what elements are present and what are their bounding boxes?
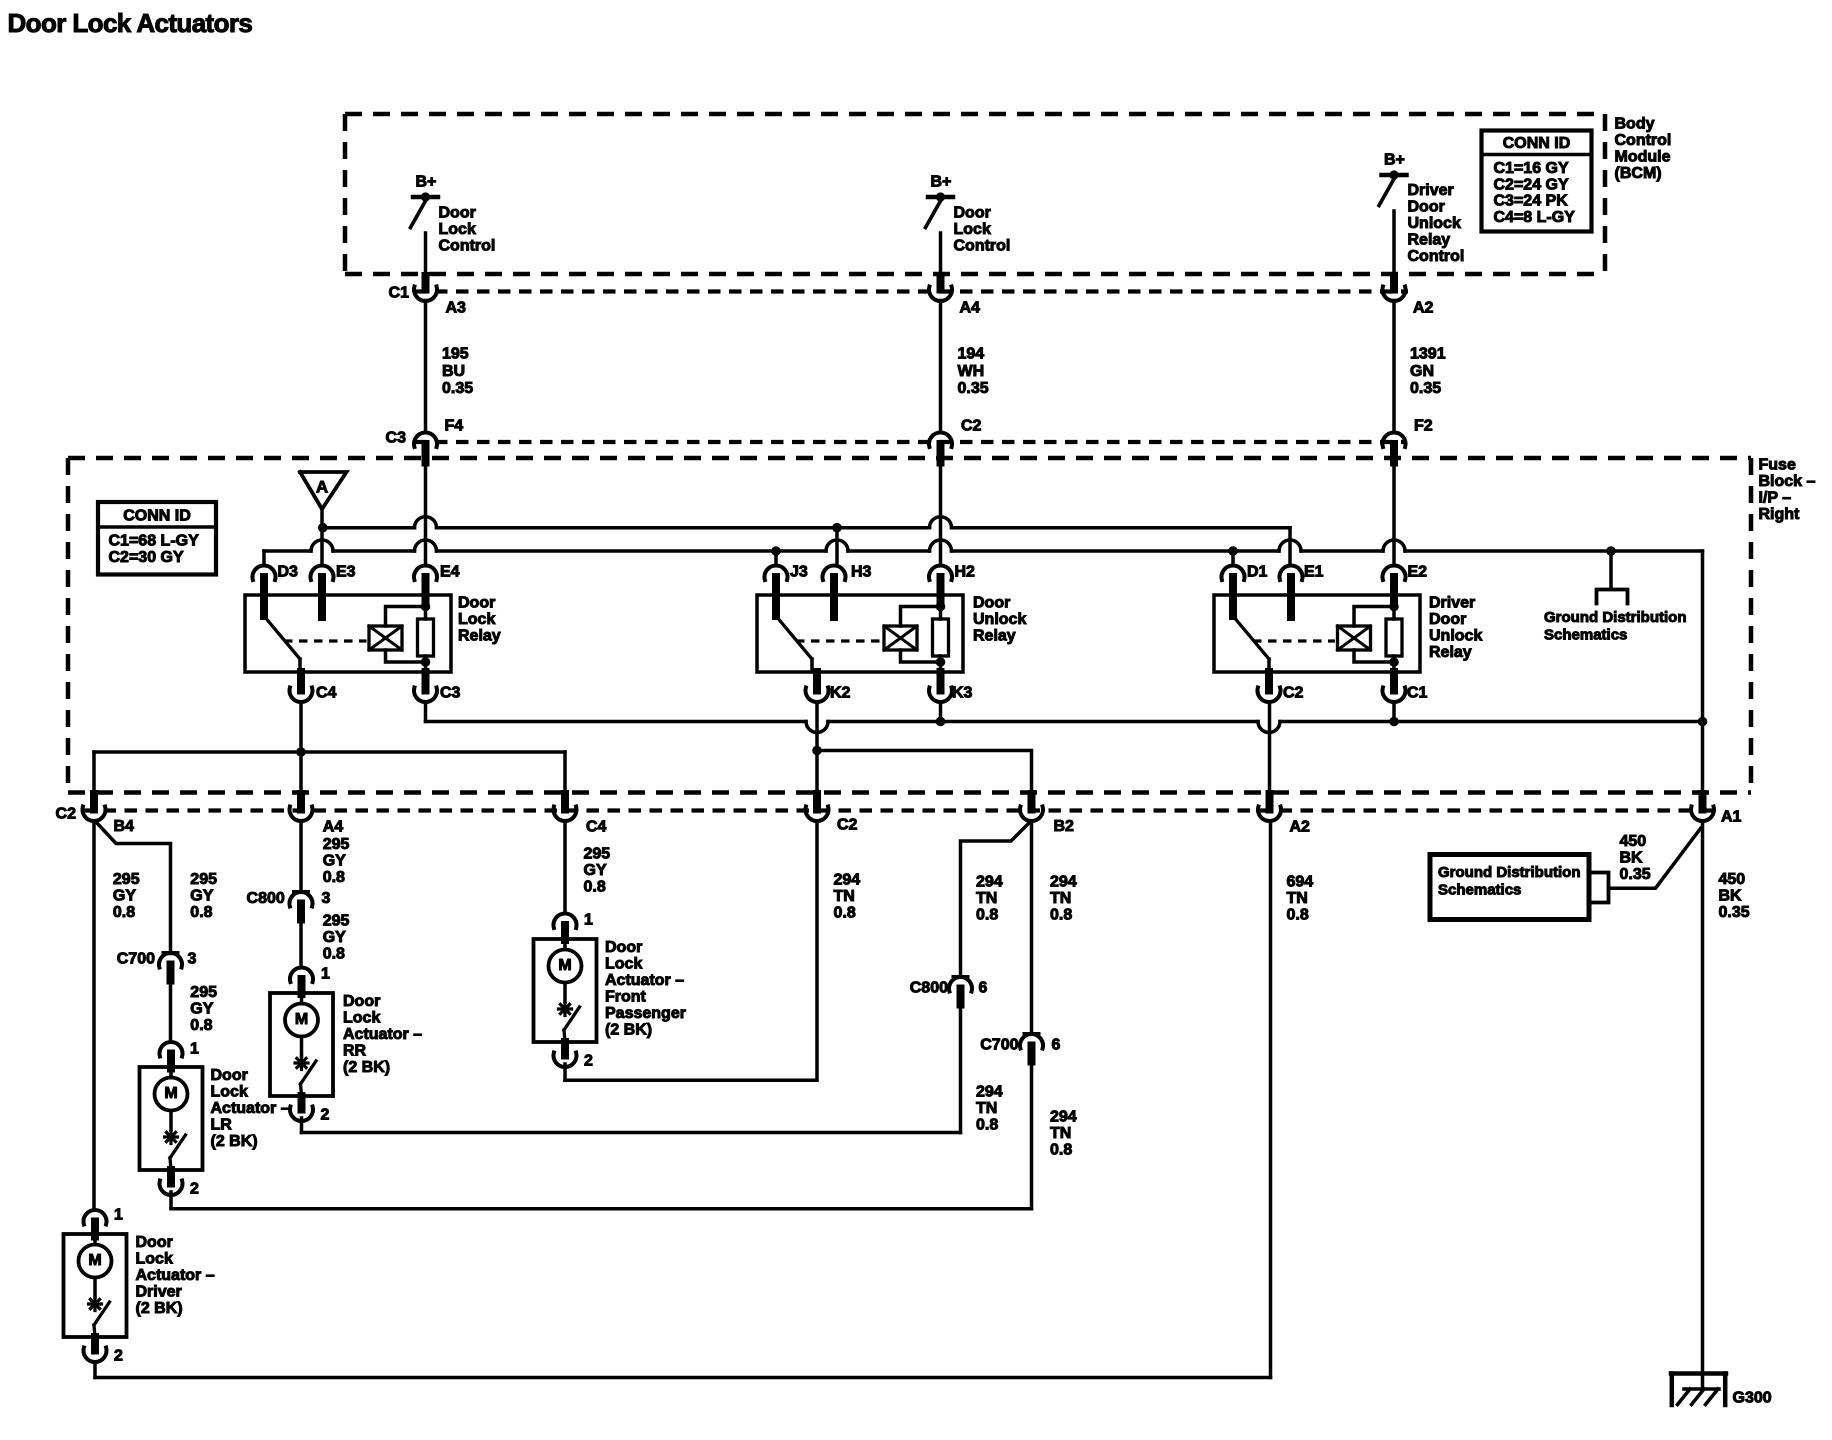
svg-text:GY: GY — [190, 1001, 213, 1018]
svg-text:2: 2 — [584, 1053, 593, 1070]
svg-text:450: 450 — [1620, 833, 1647, 850]
svg-text:1: 1 — [584, 912, 593, 929]
svg-text:Door: Door — [1429, 611, 1466, 628]
svg-text:TN: TN — [1050, 890, 1071, 907]
svg-text:Lock: Lock — [136, 1251, 173, 1268]
svg-text:C1=16 GY: C1=16 GY — [1494, 160, 1569, 177]
svg-text:1: 1 — [321, 966, 330, 983]
svg-text:0.8: 0.8 — [1287, 907, 1309, 924]
svg-text:2: 2 — [321, 1107, 330, 1124]
svg-text:Module: Module — [1615, 149, 1671, 166]
svg-text:B+: B+ — [931, 174, 952, 191]
svg-text:M: M — [88, 1252, 101, 1269]
svg-text:Actuator –: Actuator – — [211, 1100, 290, 1117]
svg-text:294: 294 — [976, 874, 1003, 891]
svg-text:1: 1 — [114, 1207, 123, 1224]
svg-text:294: 294 — [834, 872, 861, 889]
svg-text:450: 450 — [1719, 871, 1746, 888]
svg-text:GY: GY — [190, 888, 213, 905]
svg-text:TN: TN — [834, 888, 855, 905]
svg-text:Lock: Lock — [605, 956, 642, 973]
svg-text:Actuator –: Actuator – — [136, 1267, 215, 1284]
svg-text:C3: C3 — [440, 685, 461, 702]
svg-text:Door: Door — [136, 1234, 173, 1251]
svg-text:0.8: 0.8 — [976, 1117, 998, 1134]
svg-text:GN: GN — [1410, 363, 1434, 380]
svg-text:295: 295 — [190, 984, 217, 1001]
svg-text:1: 1 — [190, 1041, 199, 1058]
svg-text:C1=68 L-GY: C1=68 L-GY — [109, 533, 200, 550]
svg-text:295: 295 — [190, 871, 217, 888]
svg-text:0.35: 0.35 — [1410, 380, 1441, 397]
svg-text:B4: B4 — [114, 818, 135, 835]
svg-text:BU: BU — [442, 363, 465, 380]
svg-text:294: 294 — [976, 1084, 1003, 1101]
svg-text:0.8: 0.8 — [1050, 907, 1072, 924]
svg-text:3: 3 — [322, 890, 331, 907]
svg-text:LR: LR — [211, 1117, 233, 1134]
svg-text:I/P –: I/P – — [1759, 490, 1792, 507]
svg-text:C2=30 GY: C2=30 GY — [109, 549, 184, 566]
svg-text:Door: Door — [1408, 199, 1445, 216]
svg-text:Unlock: Unlock — [1408, 215, 1461, 232]
svg-text:D3: D3 — [278, 564, 299, 581]
svg-text:Door: Door — [439, 205, 476, 222]
svg-text:A2: A2 — [1290, 819, 1311, 836]
svg-text:0.8: 0.8 — [323, 946, 345, 963]
svg-text:F4: F4 — [445, 418, 464, 435]
svg-text:C800: C800 — [910, 980, 948, 997]
svg-text:(2 BK): (2 BK) — [211, 1133, 258, 1150]
svg-text:Front: Front — [605, 989, 647, 1006]
svg-text:Schematics: Schematics — [1438, 881, 1521, 898]
svg-text:C2: C2 — [1283, 685, 1304, 702]
svg-text:2: 2 — [114, 1348, 123, 1365]
svg-text:C3: C3 — [386, 430, 407, 447]
svg-text:B+: B+ — [1384, 152, 1405, 169]
svg-text:Door: Door — [973, 595, 1010, 612]
svg-text:K2: K2 — [830, 685, 851, 702]
svg-text:Relay: Relay — [458, 628, 501, 645]
svg-text:WH: WH — [958, 363, 985, 380]
svg-text:E3: E3 — [336, 564, 356, 581]
svg-text:0.8: 0.8 — [1050, 1142, 1072, 1159]
svg-text:Actuator –: Actuator – — [605, 972, 684, 989]
svg-text:694: 694 — [1287, 874, 1314, 891]
svg-text:(2 BK): (2 BK) — [605, 1022, 652, 1039]
svg-text:BK: BK — [1719, 888, 1743, 905]
svg-text:195: 195 — [442, 346, 469, 363]
svg-text:Fuse: Fuse — [1759, 457, 1796, 474]
svg-text:E1: E1 — [1304, 564, 1324, 581]
svg-text:BK: BK — [1620, 850, 1644, 867]
svg-text:A: A — [316, 477, 328, 496]
svg-text:TN: TN — [1050, 1125, 1071, 1142]
svg-text:Unlock: Unlock — [1429, 628, 1482, 645]
svg-text:Lock: Lock — [458, 611, 495, 628]
svg-text:294: 294 — [1050, 1109, 1077, 1126]
svg-text:C2=24 GY: C2=24 GY — [1494, 176, 1569, 193]
svg-text:Door: Door — [343, 993, 380, 1010]
svg-text:1391: 1391 — [1410, 346, 1446, 363]
svg-text:C2: C2 — [56, 806, 77, 823]
svg-text:TN: TN — [976, 1100, 997, 1117]
svg-text:M: M — [164, 1085, 177, 1102]
svg-text:0.35: 0.35 — [1719, 904, 1750, 921]
svg-text:K3: K3 — [952, 685, 973, 702]
svg-text:TN: TN — [976, 890, 997, 907]
svg-text:Body: Body — [1615, 116, 1655, 133]
svg-text:0.8: 0.8 — [190, 904, 212, 921]
svg-text:Driver: Driver — [136, 1284, 182, 1301]
svg-text:Control: Control — [1408, 248, 1465, 265]
svg-text:Driver: Driver — [1429, 595, 1475, 612]
svg-text:Ground Distribution: Ground Distribution — [1544, 609, 1686, 626]
svg-text:2: 2 — [190, 1181, 199, 1198]
svg-text:Door: Door — [458, 595, 495, 612]
svg-text:E4: E4 — [440, 564, 460, 581]
svg-text:A2: A2 — [1413, 300, 1434, 317]
svg-text:295: 295 — [323, 913, 350, 930]
svg-text:0.35: 0.35 — [958, 380, 989, 397]
svg-text:Driver: Driver — [1408, 182, 1454, 199]
svg-text:0.8: 0.8 — [834, 905, 856, 922]
svg-text:194: 194 — [958, 346, 985, 363]
svg-text:M: M — [558, 957, 571, 974]
svg-text:(BCM): (BCM) — [1615, 165, 1662, 182]
svg-text:G300: G300 — [1733, 1390, 1772, 1407]
svg-text:Relay: Relay — [973, 628, 1016, 645]
svg-text:Ground Distribution: Ground Distribution — [1438, 864, 1580, 881]
svg-text:Actuator –: Actuator – — [343, 1026, 422, 1043]
svg-text:6: 6 — [1052, 1037, 1061, 1054]
svg-text:C1: C1 — [1407, 685, 1428, 702]
svg-text:F2: F2 — [1414, 418, 1433, 435]
svg-text:GY: GY — [323, 929, 346, 946]
svg-text:C3=24 PK: C3=24 PK — [1494, 193, 1569, 210]
svg-text:A1: A1 — [1721, 809, 1742, 826]
svg-text:0.8: 0.8 — [976, 907, 998, 924]
svg-text:Door Lock Actuators: Door Lock Actuators — [8, 8, 253, 38]
svg-text:0.8: 0.8 — [323, 869, 345, 886]
svg-text:CONN ID: CONN ID — [123, 508, 191, 525]
svg-text:GY: GY — [323, 853, 346, 870]
svg-text:Lock: Lock — [211, 1084, 248, 1101]
svg-text:C4: C4 — [316, 685, 337, 702]
svg-text:C4=8 L-GY: C4=8 L-GY — [1494, 209, 1576, 226]
svg-text:295: 295 — [113, 871, 140, 888]
svg-text:(2 BK): (2 BK) — [343, 1059, 390, 1076]
svg-text:0.8: 0.8 — [113, 904, 135, 921]
svg-text:0.8: 0.8 — [190, 1017, 212, 1034]
svg-text:H3: H3 — [851, 564, 872, 581]
svg-text:A4: A4 — [323, 819, 344, 836]
svg-text:C4: C4 — [586, 819, 607, 836]
svg-text:CONN ID: CONN ID — [1503, 135, 1571, 152]
svg-text:RR: RR — [343, 1043, 367, 1060]
svg-text:C1: C1 — [389, 285, 410, 302]
svg-text:C700: C700 — [117, 951, 155, 968]
svg-text:TN: TN — [1287, 890, 1308, 907]
svg-text:Control: Control — [954, 238, 1011, 255]
svg-text:B+: B+ — [416, 174, 437, 191]
svg-text:3: 3 — [188, 951, 197, 968]
svg-text:294: 294 — [1050, 874, 1077, 891]
svg-text:Lock: Lock — [954, 221, 991, 238]
svg-text:Lock: Lock — [439, 221, 476, 238]
svg-text:C2: C2 — [837, 817, 858, 834]
svg-text:C2: C2 — [961, 418, 982, 435]
svg-text:E2: E2 — [1408, 564, 1428, 581]
svg-text:Door: Door — [954, 205, 991, 222]
svg-text:295: 295 — [323, 836, 350, 853]
svg-text:0.8: 0.8 — [584, 879, 606, 896]
svg-text:0.35: 0.35 — [442, 380, 473, 397]
svg-text:Door: Door — [605, 939, 642, 956]
svg-text:M: M — [295, 1011, 308, 1028]
svg-text:0.35: 0.35 — [1620, 866, 1651, 883]
svg-text:Block –: Block – — [1759, 473, 1816, 490]
svg-text:J3: J3 — [790, 564, 808, 581]
svg-text:Passenger: Passenger — [605, 1005, 686, 1022]
svg-text:295: 295 — [584, 846, 611, 863]
svg-text:Control: Control — [439, 238, 496, 255]
svg-text:Door: Door — [211, 1067, 248, 1084]
svg-text:GY: GY — [584, 862, 607, 879]
svg-text:H2: H2 — [955, 564, 976, 581]
svg-text:Unlock: Unlock — [973, 611, 1026, 628]
svg-text:Schematics: Schematics — [1544, 626, 1627, 643]
svg-text:C700: C700 — [980, 1037, 1018, 1054]
svg-text:GY: GY — [113, 888, 136, 905]
svg-text:D1: D1 — [1247, 564, 1268, 581]
svg-text:B2: B2 — [1054, 818, 1075, 835]
svg-text:A4: A4 — [960, 300, 981, 317]
svg-text:(2 BK): (2 BK) — [136, 1300, 183, 1317]
svg-text:A3: A3 — [446, 300, 467, 317]
svg-text:Right: Right — [1759, 506, 1801, 523]
svg-text:Lock: Lock — [343, 1010, 380, 1027]
svg-text:Relay: Relay — [1408, 232, 1451, 249]
svg-text:C800: C800 — [247, 890, 285, 907]
svg-text:Control: Control — [1615, 132, 1672, 149]
svg-text:Relay: Relay — [1429, 644, 1472, 661]
svg-text:6: 6 — [979, 980, 988, 997]
